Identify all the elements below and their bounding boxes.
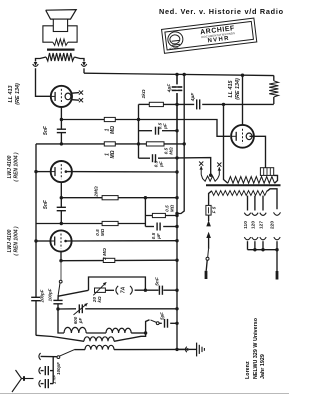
wire cap to common xyxy=(50,370,53,372)
svg-text:µF: µF xyxy=(159,161,164,168)
wire V4 right to winding xyxy=(250,136,266,167)
wire right plug to HT top bus xyxy=(83,68,85,73)
heater bus drop (x=223.5) xyxy=(224,104,228,183)
socket cup 110 lower xyxy=(244,237,250,240)
choke left plug arrow xyxy=(34,62,38,66)
voltage link bus xyxy=(248,249,278,251)
pot loop outline xyxy=(89,277,146,290)
wire 110 stem xyxy=(247,241,249,250)
switch contact (ant) xyxy=(57,356,60,359)
label 0.5 uF (stage2) xyxy=(151,232,161,239)
capacitor 0.5 uF (stage2) xyxy=(156,223,158,231)
filament x-mark right xyxy=(217,163,221,167)
wire row1 left xyxy=(61,119,104,121)
label LWJ 4100 (REN 1004) upper xyxy=(7,152,20,182)
wire heater to rect winding xyxy=(274,175,278,183)
node bus1 V3 plate xyxy=(175,239,178,242)
node bus1 V2 plate xyxy=(175,170,178,173)
wire 120 stem xyxy=(254,241,256,250)
svg-text:pF: pF xyxy=(78,318,83,325)
svg-text:kΩ: kΩ xyxy=(97,296,102,303)
wire 220 stem xyxy=(276,241,278,250)
svg-text:(RE 134): (RE 134) xyxy=(15,83,21,105)
speaker neck box xyxy=(53,19,67,31)
node pot loop right xyxy=(144,289,147,292)
svg-text:4µF: 4µF xyxy=(167,83,173,93)
switch blade (wave) xyxy=(151,320,157,323)
capacitor 5nF (wave) xyxy=(164,319,166,328)
node row1 drop xyxy=(137,118,140,121)
rail corner to L2 xyxy=(36,335,84,341)
antenna socket 2 xyxy=(39,367,41,374)
wire V1 cathode down xyxy=(60,107,62,120)
svg-text:100pF: 100pF xyxy=(48,288,53,301)
coil L3 lead left xyxy=(75,349,86,351)
svg-text:MΩ: MΩ xyxy=(110,150,116,158)
jack socket left xyxy=(116,286,118,295)
node bus1 cap3 xyxy=(175,225,178,228)
node V2 cathode row3 xyxy=(60,196,63,199)
primary winding xyxy=(211,191,267,196)
coil L3 xyxy=(85,345,114,349)
svg-text:MΩ: MΩ xyxy=(169,147,174,155)
socket cup 120 upper xyxy=(252,213,258,216)
bus1 cap gap cover xyxy=(176,84,178,93)
resistor 1 Mohm (row2) xyxy=(104,142,115,146)
wire socket2 lead xyxy=(41,370,44,372)
wire V1 row1 to 5nF xyxy=(60,120,62,130)
label 0.5 uF (stage1 top) xyxy=(158,122,168,129)
wire cap3 to bus1 xyxy=(163,226,177,228)
wire blade to 100pF xyxy=(57,295,59,300)
wire drop row1-row2 xyxy=(138,120,140,159)
svg-text:1kΩ: 1kΩ xyxy=(141,89,147,98)
mains cord end right xyxy=(276,250,278,271)
node link 120 xyxy=(253,248,256,251)
node bus2 row2 xyxy=(183,142,186,145)
wire below bleeder xyxy=(273,97,275,104)
svg-text:( REN 1004 ): ( REN 1004 ) xyxy=(14,152,20,182)
resistor 2 Mohm (row6) xyxy=(103,258,115,262)
antenna socket 1 xyxy=(39,353,41,360)
wire cap to bus1 xyxy=(162,130,177,132)
bleeder resistor zigzag right edge xyxy=(269,81,278,97)
capacitor 0.5 uF (stage1 bottom) xyxy=(152,154,154,162)
socket cup 220 upper xyxy=(274,212,281,215)
svg-text:5µF: 5µF xyxy=(160,312,165,320)
label 0.5 Mohm row4 xyxy=(95,228,105,236)
svg-text:MΩ: MΩ xyxy=(110,126,116,134)
capacitor 0.5 uF (stage1 top) xyxy=(155,127,157,135)
tube V4 rectifier xyxy=(231,125,254,148)
node bus2 top xyxy=(183,73,186,76)
wire row1 right to V4 grid xyxy=(115,120,230,137)
coil L1a xyxy=(64,327,86,333)
svg-text:220: 220 xyxy=(270,221,276,229)
svg-text:2 MΩ: 2 MΩ xyxy=(102,248,108,261)
tube V3 LWJ4100 xyxy=(50,230,71,251)
svg-text:LL 415: LL 415 xyxy=(228,80,234,98)
switch blade (grid) xyxy=(58,283,60,295)
output transformer core bar xyxy=(47,48,75,50)
wire cap2 to hum-pot tap xyxy=(158,158,211,175)
node bus1 top xyxy=(175,73,178,76)
wire row2 to bus2 xyxy=(164,143,184,145)
jack plug right xyxy=(130,286,132,295)
filament x-mark left xyxy=(199,162,203,166)
svg-text:F 5: F 5 xyxy=(212,206,217,213)
bus1 vertical (x=177) xyxy=(176,74,178,349)
header: Ned. Ver. v. Historie v/d Radio xyxy=(159,7,284,16)
socket cup 127 lower xyxy=(260,237,266,240)
node V1 cathode row1 xyxy=(60,118,63,121)
filament arrow left xyxy=(200,166,202,174)
wire 100pF node down to coil L1 xyxy=(58,309,64,333)
V1 filament x-mark lower xyxy=(79,98,83,102)
node bus1 row6 xyxy=(175,259,178,262)
earth lead xyxy=(189,348,197,350)
node feed bus1 xyxy=(175,103,178,106)
label 0.5 uF (stage1 bottom) xyxy=(154,160,164,167)
potentiometer 20k box xyxy=(95,288,106,292)
HT top bus xyxy=(84,73,274,75)
wire bus to earth socket xyxy=(177,348,186,350)
svg-text:127: 127 xyxy=(258,221,264,229)
node rail V2 xyxy=(34,170,37,173)
coil L2 xyxy=(84,337,114,342)
row4 wire xyxy=(36,223,145,225)
mains lead lower xyxy=(206,260,207,271)
node bus1 cap row xyxy=(175,129,178,132)
wire coupling cap row (y=130.7) xyxy=(139,130,153,132)
node 100pF junction xyxy=(56,307,59,310)
node bus1 row3 xyxy=(175,196,178,199)
socket cup 120 lower xyxy=(252,237,258,240)
mains plug arrow 2 xyxy=(206,232,211,238)
node bus1 309 row xyxy=(175,307,178,310)
node hum pot tap xyxy=(209,174,212,177)
svg-text:4µF: 4µF xyxy=(190,92,196,102)
wire wave cap leads xyxy=(159,322,162,324)
rail series capacitor 200pF xyxy=(31,296,40,298)
resistor 0.5 Mohm (row4) xyxy=(102,221,118,225)
wire V3 plate to bus1 xyxy=(66,240,177,242)
label 0.5 Mohm midrow xyxy=(165,204,175,212)
node link 127 xyxy=(261,248,264,251)
wire cap3 row xyxy=(145,226,154,228)
varcap arrow xyxy=(74,303,88,315)
node row2 drop xyxy=(137,142,140,145)
variable capacitor 600pF xyxy=(78,304,80,313)
node V3 row6 xyxy=(59,259,62,262)
transformer core xyxy=(206,184,281,186)
label LL 413 (RE 134) xyxy=(8,83,21,105)
node top bus V4 xyxy=(241,74,244,77)
label 1 Mohm row2 xyxy=(105,150,117,158)
choke right plug arrow xyxy=(82,62,86,66)
node rail V3 xyxy=(34,239,37,242)
pot wiper arrow xyxy=(93,282,106,295)
mains plug arrow 1 xyxy=(206,220,211,226)
V1 filament lead lower xyxy=(71,99,80,102)
wire socket3 lead xyxy=(41,383,44,385)
wire V2 cathode down xyxy=(60,182,62,198)
wire row2 mid xyxy=(115,143,146,145)
switch blade (ant) xyxy=(60,350,75,357)
capacitor 5nF (AF out) xyxy=(158,286,160,295)
primary right lead xyxy=(267,189,277,210)
label 0.5 Mohm row2 xyxy=(164,147,174,155)
ground symbol xyxy=(196,343,198,357)
primary tap 127 xyxy=(262,196,264,211)
tube V1 LL413 xyxy=(51,86,72,107)
wire V2 plate to bus1 xyxy=(66,171,177,173)
wire coil node up to wave switch xyxy=(146,320,150,333)
switch contact (mains) xyxy=(206,257,209,260)
svg-text:120: 120 xyxy=(250,221,256,229)
primary tap 110 xyxy=(247,196,249,211)
wire pot left slant xyxy=(58,290,88,296)
svg-text:µF: µF xyxy=(156,233,161,240)
choke left lead wire xyxy=(36,57,47,62)
wire L3 to ground row xyxy=(114,348,186,350)
wire drop row3 down xyxy=(144,198,146,227)
wire row2 from left rail xyxy=(36,143,104,145)
socket cup 110 upper xyxy=(244,213,250,216)
rectifier filament winding box xyxy=(260,168,273,176)
node feed heater-bus xyxy=(222,103,225,106)
speaker outer box xyxy=(43,26,77,42)
wire V2 5nF stem xyxy=(60,198,62,208)
wire 5nF to row2 xyxy=(60,133,62,144)
choke right lead wire xyxy=(74,57,84,62)
wire left plug to tube V1 grid xyxy=(36,68,51,96)
wire 1k feed xyxy=(139,103,150,105)
V1 filament lead upper xyxy=(71,92,80,95)
primary tap 120 xyxy=(254,196,256,211)
wire row3 xyxy=(61,197,177,199)
node coil junction xyxy=(144,331,147,334)
svg-text:(RE 134): (RE 134) xyxy=(235,78,241,100)
wire 309 row xyxy=(58,308,76,310)
wire bus to V4 anode xyxy=(242,75,244,125)
resistor 1k (feed) xyxy=(149,102,163,106)
svg-text:5nF: 5nF xyxy=(43,199,49,209)
node bus2 merge xyxy=(175,212,178,215)
wire feed to cap xyxy=(163,103,194,105)
label LL 415 (RE 134) xyxy=(228,78,241,100)
label LWJ 4100 (REN 1004) lower xyxy=(7,226,20,256)
wire rail to V3 grid xyxy=(36,240,50,242)
svg-text:µF: µF xyxy=(163,123,168,130)
svg-text:5nF: 5nF xyxy=(43,125,49,135)
svg-text:1 nF: 1 nF xyxy=(52,375,57,384)
rail segment lower (x=36) xyxy=(35,241,37,297)
wire 100pF down xyxy=(57,304,59,309)
svg-text:LWJ 4100: LWJ 4100 xyxy=(7,155,13,178)
capacitor 100pF (grid) xyxy=(53,299,62,301)
node row4 5nF xyxy=(60,222,63,225)
mains cord end left xyxy=(205,271,208,279)
HT right corner down xyxy=(273,76,275,81)
svg-text:2MΩ: 2MΩ xyxy=(94,186,100,198)
wire socket1 to switch xyxy=(41,355,57,357)
coil L1b xyxy=(106,328,131,333)
wire 127 stem xyxy=(262,241,264,250)
scan edge line xyxy=(0,393,289,394)
switch contact (grid) xyxy=(59,280,62,283)
node bus1 cap2 row xyxy=(175,156,178,159)
label 20k xyxy=(92,296,102,303)
svg-text:5nF: 5nF xyxy=(155,276,161,286)
node link 220 xyxy=(275,248,278,251)
svg-text:( REN 1004 ): ( REN 1004 ) xyxy=(14,226,20,256)
antenna common vertical xyxy=(52,357,54,384)
wire between L1a L1b xyxy=(86,332,106,334)
V1 filament x-mark upper xyxy=(79,91,83,95)
label 1 Mohm row1 xyxy=(105,126,117,134)
speaker voice-coil resistor zigzag xyxy=(53,39,68,45)
NVHR archive stamp xyxy=(161,18,257,54)
svg-text:LL 413: LL 413 xyxy=(8,86,14,103)
socket cup 220 lower xyxy=(274,237,280,240)
node bus1 ground row xyxy=(175,348,178,351)
wire pot to jack xyxy=(105,289,114,291)
bus2 vertical (x=184.2) xyxy=(177,74,184,213)
wire varcap to bus1 xyxy=(85,308,177,310)
wire V3 cathode down xyxy=(60,252,62,261)
svg-text:MΩ: MΩ xyxy=(170,204,175,212)
resistor 1 Mohm (row1) xyxy=(104,117,115,121)
primary left lead to fuse xyxy=(209,191,212,205)
svg-text:7A: 7A xyxy=(121,286,127,293)
heater winding xyxy=(228,177,275,184)
wire jack to cap xyxy=(135,289,159,291)
earth socket cup xyxy=(185,347,186,353)
output choke winding xyxy=(46,53,74,61)
wire cap to bus1 (AF) xyxy=(163,289,177,291)
wire feed right xyxy=(202,103,274,105)
wire cap to common lower xyxy=(50,383,53,385)
node bus1 midrow xyxy=(175,214,178,217)
node row3 drop xyxy=(144,196,147,199)
wire row6 xyxy=(61,259,177,262)
capacitor 100pF (ant) xyxy=(44,366,46,375)
hum potentiometer xyxy=(201,175,219,182)
rail segment upper (x=36) xyxy=(35,144,37,241)
wire 1k feed left drop xyxy=(138,104,140,119)
capacitor 4uF (series feed) xyxy=(196,99,198,109)
wire coupling cap row2 (y=158) xyxy=(139,157,151,159)
socket cup 127 upper xyxy=(260,213,266,216)
svg-text:200pF: 200pF xyxy=(40,289,45,303)
switch blade (mains) xyxy=(207,249,210,257)
antenna socket 3 xyxy=(39,380,41,387)
label 600pF xyxy=(73,316,83,324)
capacitor 4uF (bus1) xyxy=(172,86,182,88)
node bus1 pot row xyxy=(175,289,178,292)
resistor 0.5 Mohm (midrow) xyxy=(152,213,165,217)
svg-text:LWJ 4100: LWJ 4100 xyxy=(7,229,13,252)
node 5nF row2 xyxy=(60,142,63,145)
svg-text:100pF: 100pF xyxy=(56,362,61,375)
title block: Lorenz NELWU 329 W Universo Jahr 1929 xyxy=(245,335,267,379)
wire rail to V2 grid xyxy=(36,171,51,173)
capacitor 5nF (V1) xyxy=(57,128,66,130)
resistor 2 Mohm (row3) xyxy=(102,196,118,200)
node bus1 wave row xyxy=(175,322,178,325)
wire L1b right xyxy=(131,332,145,334)
tube V2 LWJ4100 xyxy=(51,161,72,182)
speaker LS horn xyxy=(46,10,76,20)
fuse F5 xyxy=(206,205,211,215)
capacitor 5nF (V2) xyxy=(57,206,66,208)
resistor 0.5 Mohm (row2) xyxy=(146,142,164,146)
choke right socket cup xyxy=(81,64,87,66)
mains lead upper xyxy=(208,215,210,221)
switch contact (wave) xyxy=(156,322,159,325)
svg-text:110: 110 xyxy=(243,221,249,229)
filament arrow right xyxy=(218,167,220,175)
wire L2 right hook xyxy=(114,333,146,341)
antenna symbol xyxy=(12,370,22,392)
svg-text:MΩ: MΩ xyxy=(100,228,105,236)
wire V3 grid-bias drop xyxy=(60,261,62,281)
capacitor 1nF (ant) xyxy=(44,379,46,388)
choke left socket cup xyxy=(33,64,39,66)
wire midrow xyxy=(145,215,177,217)
